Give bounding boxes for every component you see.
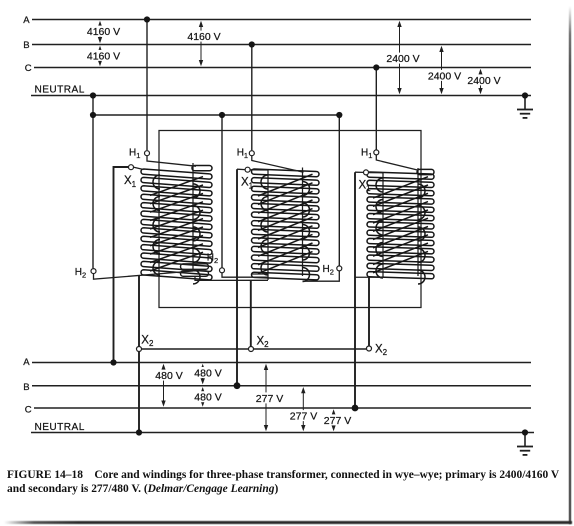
svg-text:H1: H1 [129, 148, 140, 161]
svg-text:B: B [23, 40, 29, 51]
svg-text:H2: H2 [75, 267, 86, 280]
svg-text:H1: H1 [361, 148, 372, 161]
svg-text:X1: X1 [359, 179, 372, 193]
svg-text:480 V: 480 V [194, 367, 221, 379]
svg-text:NEUTRAL: NEUTRAL [35, 85, 85, 96]
svg-text:C: C [25, 63, 32, 74]
svg-text:2400 V: 2400 V [428, 70, 461, 82]
svg-text:2400 V: 2400 V [386, 53, 419, 65]
svg-text:X1: X1 [124, 175, 137, 189]
svg-text:B: B [23, 382, 29, 393]
svg-text:X2: X2 [141, 334, 154, 348]
svg-text:X2: X2 [375, 343, 388, 357]
svg-text:H1: H1 [237, 148, 248, 161]
svg-text:H2: H2 [207, 253, 218, 266]
svg-text:4160 V: 4160 V [87, 50, 120, 62]
svg-text:4160 V: 4160 V [187, 31, 220, 43]
svg-text:2400 V: 2400 V [467, 75, 500, 87]
svg-text:480 V: 480 V [194, 392, 221, 404]
svg-text:X2: X2 [257, 335, 270, 349]
svg-text:A: A [23, 357, 30, 368]
svg-text:A: A [23, 15, 30, 26]
svg-text:277 V: 277 V [256, 393, 283, 405]
svg-text:277 V: 277 V [324, 415, 351, 427]
svg-text:H2: H2 [323, 264, 334, 277]
svg-text:NEUTRAL: NEUTRAL [35, 422, 85, 433]
svg-text:C: C [25, 404, 32, 415]
svg-text:480 V: 480 V [155, 370, 182, 382]
svg-text:4160 V: 4160 V [87, 26, 120, 38]
svg-text:277 V: 277 V [290, 411, 317, 423]
